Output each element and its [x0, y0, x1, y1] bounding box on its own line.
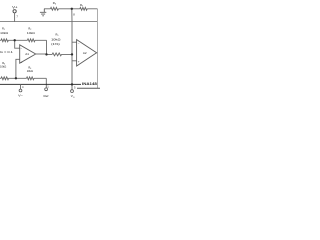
svg-text:A2: A2	[83, 51, 87, 55]
node X junction dot	[14, 39, 16, 41]
node bottom divider junction dot	[15, 77, 17, 79]
svg-text:4: 4	[22, 85, 24, 89]
node A1 output junction dot	[45, 53, 47, 55]
svg-text:8: 8	[73, 12, 75, 16]
svg-text:10kΩ: 10kΩ	[0, 65, 7, 69]
resistor R6 (top left external)	[50, 7, 58, 10]
terminal V+	[13, 10, 16, 13]
svg-text:+: +	[21, 60, 23, 64]
terminal V-	[19, 89, 22, 92]
wire: V- stub pin4	[20, 84, 22, 89]
wire: feedback node vertical pin8	[72, 9, 77, 90]
svg-text:R6: R6	[53, 1, 56, 6]
svg-text:G = 0.1: G = 0.1	[0, 50, 13, 54]
IC box top edge (INA148 outline top)	[0, 21, 97, 23]
resistor R1	[1, 39, 8, 42]
svg-text:V−: V−	[18, 94, 23, 98]
op-amp A1	[20, 45, 36, 63]
terminal Vo	[71, 90, 74, 93]
wire: V+ stub pin7	[14, 13, 16, 22]
svg-text:1: 1	[47, 84, 49, 88]
node N1 junction dot	[71, 8, 73, 10]
wire: A1 output	[36, 53, 47, 55]
resistor R7 (top right external)	[80, 7, 87, 10]
wire: R5 run to A2	[47, 53, 73, 55]
svg-text:A1: A1	[25, 52, 29, 56]
node R5/A2 junction dot	[71, 53, 73, 55]
terminal Ref	[45, 88, 48, 91]
svg-text:INA148: INA148	[82, 82, 97, 86]
resistor R3 (bottom left)	[1, 77, 9, 80]
wire: output rule under INA148	[77, 87, 100, 89]
resistor R4 (bottom right)	[27, 77, 34, 80]
IC box right edge / feedback wire	[96, 9, 98, 88]
svg-text:+: +	[78, 60, 80, 64]
svg-text:−: −	[78, 41, 80, 45]
svg-text:7: 7	[16, 15, 18, 19]
svg-text:−: −	[20, 46, 22, 50]
wire: Ref stub pin1	[45, 84, 47, 87]
svg-text:R7: R7	[80, 3, 83, 8]
wire: bottom divider run	[0, 78, 46, 84]
svg-text:10kΩ: 10kΩ	[27, 31, 36, 35]
wire: A2 output to feedback	[96, 52, 99, 54]
svg-text:10kΩ: 10kΩ	[0, 31, 9, 35]
svg-text:5: 5	[74, 85, 76, 89]
node ref crossing dot	[46, 84, 47, 85]
node rail crossing dot	[71, 83, 73, 85]
op-amp A2 (INA148 internal)	[77, 40, 97, 66]
svg-text:(1%): (1%)	[51, 42, 60, 46]
svg-text:V+: V+	[12, 5, 17, 9]
svg-text:10kΩ: 10kΩ	[51, 37, 61, 41]
wire: node X to A1 inverting input	[15, 40, 20, 48]
resistor R5	[52, 53, 61, 56]
IC box bottom edge	[0, 83, 81, 85]
svg-text:Ref: Ref	[44, 94, 49, 98]
svg-text:VO: VO	[71, 94, 75, 99]
ground	[40, 9, 46, 16]
resistor R2	[27, 39, 35, 42]
svg-text:10kΩ: 10kΩ	[27, 69, 34, 73]
wire: A1 noninverting input to bottom divider	[16, 59, 20, 78]
wire: internal top input run	[0, 40, 47, 54]
wire: top feedback run	[44, 8, 97, 10]
